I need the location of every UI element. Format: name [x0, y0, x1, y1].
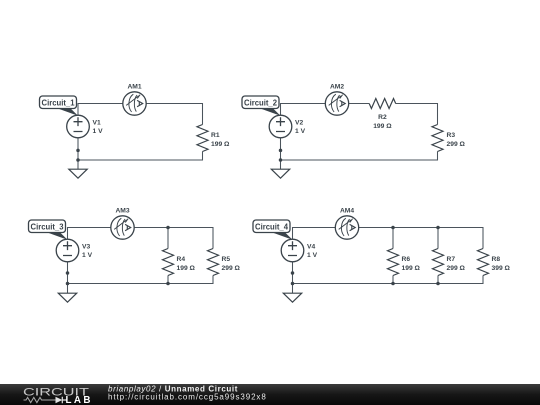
svg-text:http://circuitlab.com/ccg5a99s: http://circuitlab.com/ccg5a99s392x8: [108, 392, 267, 401]
label R6 value: [402, 256, 421, 272]
label R1 value: [211, 132, 230, 148]
resistor R4: [163, 249, 174, 276]
wire top: V4 top to R6/R7/R8 tops: [293, 228, 484, 249]
junction dot at bottom wire: [76, 158, 80, 162]
label V4 value: [307, 244, 318, 260]
svg-text:AM2: AM2: [330, 84, 344, 91]
wire top: V2 top to R2 then R3 top: [281, 104, 438, 125]
svg-text:Circuit_4: Circuit_4: [255, 222, 288, 232]
voltage source V2: [269, 115, 292, 138]
label R7 value: [447, 256, 466, 272]
svg-text:299 Ω: 299 Ω: [447, 141, 466, 148]
svg-text:R8: R8: [492, 256, 501, 263]
wire top: V1 top to R1 top: [78, 104, 203, 125]
junction dot bottom wire at R4: [166, 282, 170, 286]
ammeter AM1: [123, 92, 146, 115]
junction dot below V1: [76, 149, 80, 153]
svg-text:R4: R4: [177, 256, 186, 263]
svg-text:R5: R5: [222, 256, 231, 263]
svg-text:Circuit_1: Circuit_1: [42, 98, 75, 108]
svg-text:R2: R2: [378, 114, 387, 121]
svg-text:V1: V1: [93, 120, 101, 127]
label R8 value: [492, 256, 511, 272]
junction dot bottom wire at V3: [66, 282, 70, 286]
svg-text:1 V: 1 V: [307, 252, 318, 259]
junction dot at bottom wire: [279, 158, 283, 162]
ammeter AM3: [111, 216, 134, 239]
svg-text:1 V: 1 V: [295, 128, 306, 135]
svg-text:R3: R3: [447, 132, 456, 139]
svg-text:399 Ω: 399 Ω: [492, 265, 511, 272]
logo resistor zigzag: [24, 397, 56, 402]
wire bottom: R4/R5 bottoms to V3 ground node: [68, 262, 214, 293]
wire bottom: R3 bottom to V2 ground node: [281, 138, 438, 169]
resistor R2: [369, 99, 396, 109]
svg-text:1 V: 1 V: [93, 128, 104, 135]
svg-text:Circuit_2: Circuit_2: [244, 98, 277, 108]
svg-text:199 Ω: 199 Ω: [402, 265, 421, 272]
svg-text:AM1: AM1: [127, 84, 141, 91]
junction dot bottom wire at R7: [436, 282, 440, 286]
wire top: V3 top to R4/R5 tops: [68, 228, 214, 249]
node flag Circuit_2: [242, 96, 281, 116]
wire bottom: R1 bottom to V1 ground node: [78, 138, 203, 169]
ground (circuit 3): [58, 293, 76, 302]
svg-text:R1: R1: [211, 132, 220, 139]
junction dot top wire at R6: [391, 226, 395, 230]
resistor R8: [478, 249, 489, 276]
ground (circuit 1): [69, 169, 87, 178]
label R4 value: [177, 256, 196, 272]
svg-text:V3: V3: [82, 244, 90, 251]
svg-text:V4: V4: [307, 244, 315, 251]
label V1 value: [93, 120, 104, 136]
label V2 value: [295, 120, 306, 136]
ammeter AM2: [325, 92, 348, 115]
svg-text:299 Ω: 299 Ω: [447, 265, 466, 272]
junction dot below V2: [279, 149, 283, 153]
svg-text:199 Ω: 199 Ω: [373, 123, 392, 130]
resistor R7: [433, 249, 444, 276]
junction dot bottom wire at V4: [291, 282, 295, 286]
resistor R5: [208, 249, 219, 276]
junction dot below V4: [291, 271, 295, 275]
svg-text:299 Ω: 299 Ω: [222, 265, 241, 272]
voltage source V3: [56, 239, 79, 262]
svg-text:R6: R6: [402, 256, 411, 263]
node flag Circuit_1: [40, 96, 79, 116]
svg-text:AM4: AM4: [340, 208, 354, 215]
junction dot top wire at R7: [436, 226, 440, 230]
svg-text:R7: R7: [447, 256, 456, 263]
svg-text:Circuit_3: Circuit_3: [31, 222, 64, 232]
voltage source V1: [67, 115, 90, 138]
svg-text:199 Ω: 199 Ω: [211, 141, 230, 148]
label V3 value: [82, 244, 93, 260]
junction dot bottom wire at R6: [391, 282, 395, 286]
voltage source V4: [281, 239, 304, 262]
node flag Circuit_3: [29, 220, 68, 240]
svg-text:LAB: LAB: [66, 395, 91, 405]
logo diode symbol: [56, 397, 63, 404]
ground (circuit 4): [283, 293, 301, 302]
svg-text:AM3: AM3: [115, 208, 129, 215]
ammeter AM4: [335, 216, 358, 239]
wire bottom: R6/R7/R8 bottoms to V4 ground node: [293, 262, 484, 293]
resistor R6: [388, 249, 399, 276]
resistor R3: [432, 125, 443, 152]
svg-text:199 Ω: 199 Ω: [177, 265, 196, 272]
resistor R1: [197, 125, 208, 152]
ground (circuit 2): [271, 169, 289, 178]
label R2 value: [373, 114, 392, 130]
node flag Circuit_4: [253, 220, 293, 240]
label R5 value: [222, 256, 241, 272]
junction dot top wire at R4: [166, 226, 170, 230]
label R3 value: [447, 132, 466, 148]
svg-text:1 V: 1 V: [82, 252, 93, 259]
svg-text:V2: V2: [295, 120, 303, 127]
junction dot below V3: [66, 271, 70, 275]
